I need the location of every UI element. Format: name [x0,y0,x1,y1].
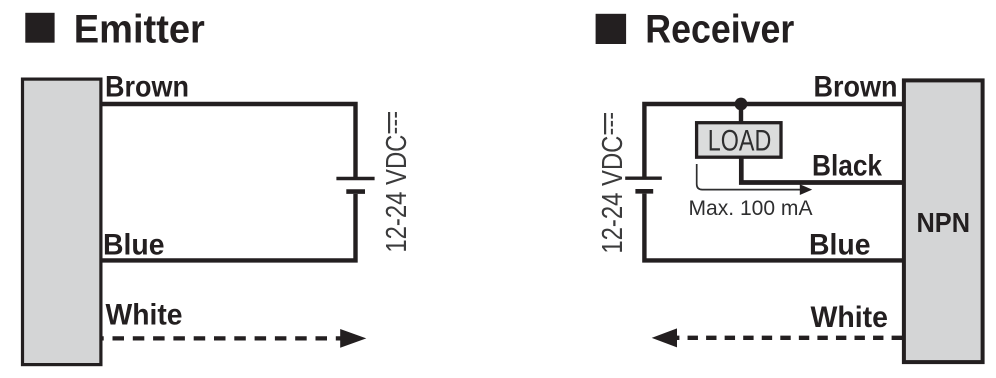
svg-text:Receiver: Receiver [645,8,794,52]
arrowhead: emitter white beam (points right) [340,329,366,348]
heading marker square (Emitter) [25,13,54,43]
svg-text:12-24 VDC: 12-24 VDC [381,135,413,253]
label 12-24 VDC (receiver, rotated) [597,113,629,254]
svg-text:LOAD: LOAD [708,125,772,158]
load resistor box [697,123,781,158]
svg-text:NPN: NPN [917,207,971,238]
svg-text:White: White [106,299,183,332]
battery B1 negative plate (short) [346,189,365,194]
wire: emitter white dashed (light beam out) [102,336,341,340]
svg-text:12-24 VDC: 12-24 VDC [597,136,629,254]
wire: junction down to LOAD [739,104,743,124]
arrowhead: receiver white beam (points left) [652,328,677,347]
wire: receiver white dashed (light beam in) [677,336,902,340]
wire: receiver brown (V+) with left drop to battery [644,104,903,179]
svg-text:Blue: Blue [103,228,165,261]
svg-text:White: White [811,301,889,334]
wire: battery B1 negative to blue [100,194,356,261]
wire: LOAD down to black output [741,158,903,183]
svg-text:Brown: Brown [814,70,898,103]
wire: battery B2 negative to blue [644,194,903,261]
current flow arrow (thin) from LOAD [697,164,800,190]
heading marker square (Receiver) [596,14,627,44]
emitter sensor body [23,79,101,365]
battery B2 negative plate (short) [635,189,653,194]
wire: emitter brown (V+) with right drop [100,104,356,179]
svg-text:Brown: Brown [105,70,189,103]
battery B1 positive plate (long) [336,177,374,180]
junction node (brown / load) [735,98,748,111]
battery B2 positive plate (long) [625,176,662,179]
receiver sensor body (NPN) [904,80,983,362]
svg-text:Emitter: Emitter [74,8,205,52]
arrowhead: current flow (points right) [800,184,812,195]
svg-text:Black: Black [812,149,882,182]
svg-text:Max. 100 mA: Max. 100 mA [689,196,814,220]
label 12-24 VDC (emitter, rotated) [381,112,413,253]
svg-text:Blue: Blue [809,228,871,261]
